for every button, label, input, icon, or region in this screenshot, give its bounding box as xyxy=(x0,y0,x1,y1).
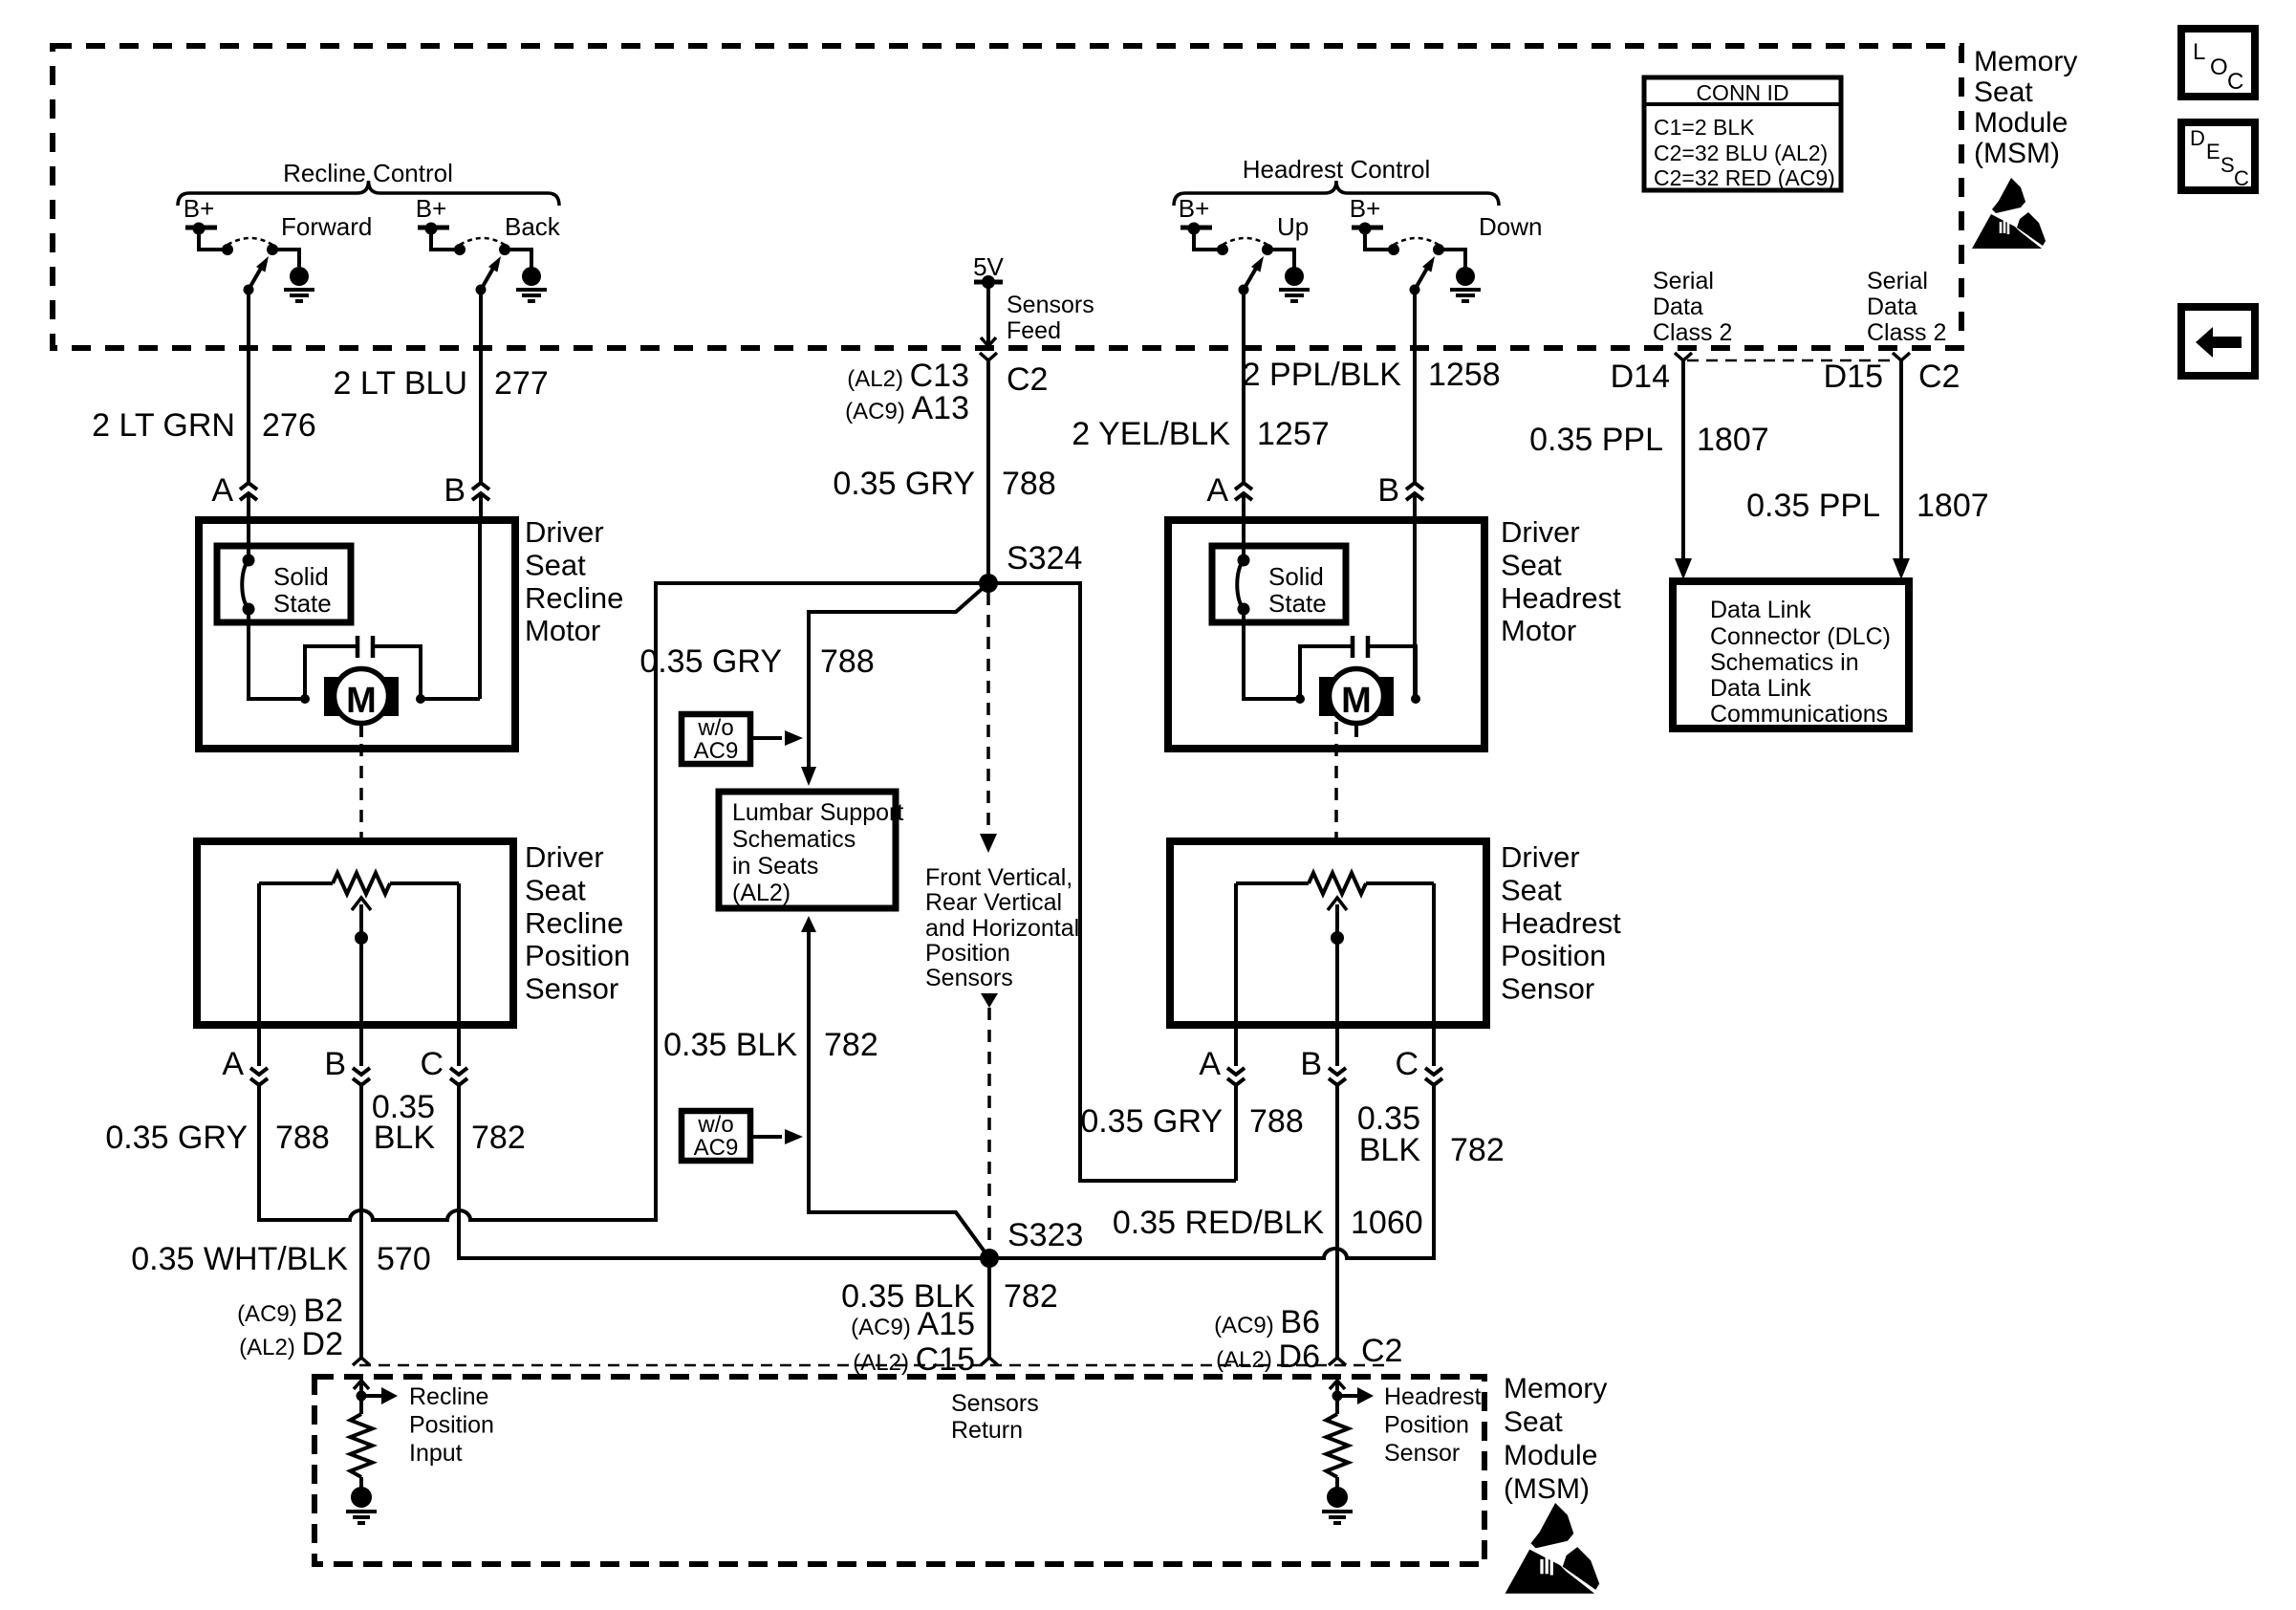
svg-text:Module: Module xyxy=(1504,1440,1597,1471)
svg-text:(MSM): (MSM) xyxy=(1504,1473,1590,1505)
svg-text:Driver: Driver xyxy=(1501,515,1580,549)
svg-text:2 LT GRN: 2 LT GRN xyxy=(92,407,235,444)
svg-text:in Seats: in Seats xyxy=(732,853,818,880)
LOC reference box xyxy=(2181,29,2255,97)
svg-text:C: C xyxy=(2234,166,2249,190)
svg-text:Back: Back xyxy=(505,212,561,241)
svg-text:AC9: AC9 xyxy=(694,1135,739,1161)
svg-text:0.35 PPL: 0.35 PPL xyxy=(1529,422,1663,458)
svg-text:Data Link: Data Link xyxy=(1710,597,1811,623)
svg-text:w/o: w/o xyxy=(697,1112,733,1138)
svg-text:B: B xyxy=(1377,472,1399,509)
CONN ID table xyxy=(1644,77,1841,190)
resistor Recline Position Input xyxy=(354,1381,369,1389)
svg-text:788: 788 xyxy=(275,1120,330,1156)
wire 0.35 BLK 782 (lumbar return) xyxy=(801,916,816,932)
svg-text:C: C xyxy=(2227,69,2243,95)
svg-text:1807: 1807 xyxy=(1697,422,1769,458)
resistor Headrest Position Sensor xyxy=(1330,1381,1345,1389)
svg-text:Sensors: Sensors xyxy=(1007,292,1094,318)
svg-text:Feed: Feed xyxy=(1007,317,1061,344)
svg-text:C1=2 BLK: C1=2 BLK xyxy=(1654,115,1755,140)
svg-text:S323: S323 xyxy=(1007,1217,1083,1253)
svg-text:Return: Return xyxy=(951,1417,1023,1444)
Driver Seat Recline Position Sensor xyxy=(197,841,513,1025)
mechanical link headrest motor-sensor xyxy=(1334,722,1338,841)
svg-text:L: L xyxy=(2193,39,2205,65)
connector C2 pin (sensors feed) xyxy=(980,353,997,360)
splice S324 xyxy=(979,574,998,593)
svg-text:S: S xyxy=(2220,153,2235,177)
svg-text:788: 788 xyxy=(1002,466,1056,502)
svg-text:Recline: Recline xyxy=(525,581,623,615)
svg-text:782: 782 xyxy=(1450,1132,1505,1168)
svg-text:0.35 GRY: 0.35 GRY xyxy=(1080,1103,1223,1140)
svg-text:Solid: Solid xyxy=(273,562,329,591)
mechanical link recline motor-sensor xyxy=(359,722,363,841)
svg-text:State: State xyxy=(273,589,332,618)
svg-text:276: 276 xyxy=(262,407,316,444)
svg-text:2 LT BLU: 2 LT BLU xyxy=(334,365,467,402)
svg-text:788: 788 xyxy=(1249,1103,1304,1140)
svg-text:Communications: Communications xyxy=(1710,701,1888,728)
svg-text:Driver: Driver xyxy=(1501,840,1580,874)
svg-text:Headrest: Headrest xyxy=(1384,1383,1481,1410)
Headrest Control brace xyxy=(1174,181,1499,206)
svg-text:Sensor: Sensor xyxy=(525,972,618,1006)
wire 0.35 PPL 1807 (D15 serial data) xyxy=(1893,353,1910,360)
svg-text:Sensors: Sensors xyxy=(951,1390,1039,1417)
svg-text:A: A xyxy=(211,472,233,509)
svg-text:Seat: Seat xyxy=(1974,76,2033,108)
svg-text:B+: B+ xyxy=(184,194,215,223)
svg-text:Serial: Serial xyxy=(1867,268,1928,294)
svg-text:Driver: Driver xyxy=(525,840,604,874)
svg-text:BLK: BLK xyxy=(374,1120,436,1156)
svg-text:A: A xyxy=(1206,472,1228,509)
svg-text:788: 788 xyxy=(820,643,875,680)
Memory Seat Module top dashed box xyxy=(53,46,1961,348)
svg-text:Serial: Serial xyxy=(1653,268,1714,294)
callout w/o AC9 (upper) xyxy=(682,714,750,764)
svg-text:D: D xyxy=(2190,126,2205,150)
svg-text:Seat: Seat xyxy=(1501,873,1562,906)
svg-text:0.35 WHT/BLK: 0.35 WHT/BLK xyxy=(131,1241,348,1277)
wire 0.35 PPL 1807 (D14 serial data) xyxy=(1675,353,1692,360)
wire 0.35 BLK 782 (recline sensor C to S323) xyxy=(459,1082,985,1258)
svg-text:(MSM): (MSM) xyxy=(1974,138,2060,169)
svg-text:C: C xyxy=(1395,1046,1419,1082)
svg-text:570: 570 xyxy=(377,1241,431,1277)
svg-text:Seat: Seat xyxy=(525,873,586,906)
svg-text:Position: Position xyxy=(525,939,630,972)
dashed wire to S323 (lower) xyxy=(981,993,998,1008)
connector C2 thin dashed line (bottom) xyxy=(359,1364,1386,1367)
svg-text:Recline Control: Recline Control xyxy=(283,159,453,187)
wire 0.35 WHT/BLK 570 (recline position input) xyxy=(359,1082,363,1359)
wire S323 to headrest sensor C xyxy=(989,1082,1434,1258)
svg-text:Data: Data xyxy=(1653,294,1703,320)
svg-text:Data Link: Data Link xyxy=(1710,675,1811,702)
wire S324 to lumbar feed xyxy=(809,583,988,767)
svg-text:0.35 GRY: 0.35 GRY xyxy=(639,643,782,680)
svg-text:2 PPL/BLK: 2 PPL/BLK xyxy=(1243,357,1402,393)
svg-text:M: M xyxy=(346,681,377,721)
svg-text:Sensor: Sensor xyxy=(1384,1440,1460,1467)
svg-text:D15: D15 xyxy=(1824,359,1883,395)
Lumbar Support Schematics callout box xyxy=(719,792,896,908)
svg-text:277: 277 xyxy=(494,365,549,402)
svg-text:(AL2): (AL2) xyxy=(732,880,791,906)
svg-text:782: 782 xyxy=(824,1027,878,1063)
svg-text:C2: C2 xyxy=(1007,361,1048,398)
svg-text:Seat: Seat xyxy=(525,548,586,581)
ESD warning symbol (bottom) xyxy=(1531,1503,1574,1548)
wire headrest sensor A drop xyxy=(1234,1082,1238,1181)
splice S323 xyxy=(980,1249,999,1268)
svg-text:Position: Position xyxy=(1384,1412,1469,1439)
svg-text:Front Vertical,: Front Vertical, xyxy=(925,864,1072,891)
svg-text:1258: 1258 xyxy=(1428,357,1501,393)
svg-text:B: B xyxy=(1300,1046,1322,1082)
svg-text:A: A xyxy=(222,1046,244,1082)
svg-text:C2: C2 xyxy=(1918,359,1960,395)
svg-text:2 YEL/BLK: 2 YEL/BLK xyxy=(1072,416,1230,452)
svg-text:Seat: Seat xyxy=(1504,1406,1563,1438)
svg-text:1060: 1060 xyxy=(1351,1205,1423,1241)
Recline Control brace xyxy=(178,181,559,206)
svg-text:Data: Data xyxy=(1867,294,1917,320)
svg-text:B: B xyxy=(444,472,466,509)
svg-text:Up: Up xyxy=(1277,212,1309,241)
svg-text:S324: S324 xyxy=(1007,540,1082,577)
svg-text:AC9: AC9 xyxy=(694,738,739,764)
svg-text:Solid: Solid xyxy=(1268,562,1324,591)
svg-text:0.35 PPL: 0.35 PPL xyxy=(1746,488,1880,524)
svg-text:B+: B+ xyxy=(416,194,447,223)
DESC reference box xyxy=(2181,122,2255,190)
wire 2 LT BLU 277 (recline B) xyxy=(479,290,483,483)
wire 2 YEL/BLK 1257 (headrest A) xyxy=(1242,290,1245,483)
svg-text:Position: Position xyxy=(1501,939,1606,972)
svg-text:O: O xyxy=(2210,54,2228,80)
svg-text:CONN ID: CONN ID xyxy=(1696,80,1788,105)
svg-text:Connector (DLC): Connector (DLC) xyxy=(1710,623,1891,650)
svg-text:B: B xyxy=(324,1046,346,1082)
svg-text:Motor: Motor xyxy=(525,614,600,647)
wire 2 LT GRN 276 (recline A) xyxy=(247,290,250,483)
svg-text:Lumbar Support: Lumbar Support xyxy=(732,799,903,826)
svg-text:Headrest Control: Headrest Control xyxy=(1243,155,1431,184)
wire S324 to headrest branch xyxy=(988,583,1236,1181)
svg-text:Position: Position xyxy=(409,1412,494,1439)
back arrow box xyxy=(2181,307,2255,376)
svg-text:Class 2: Class 2 xyxy=(1653,319,1732,346)
svg-text:Memory: Memory xyxy=(1974,46,2077,77)
svg-text:Headrest: Headrest xyxy=(1501,581,1621,615)
svg-text:0.35 RED/BLK: 0.35 RED/BLK xyxy=(1113,1205,1324,1241)
Memory Seat Module bottom dashed box xyxy=(314,1377,1484,1564)
svg-text:Sensor: Sensor xyxy=(1501,972,1594,1006)
svg-text:0.35 GRY: 0.35 GRY xyxy=(833,466,975,502)
callout w/o AC9 (lower) xyxy=(682,1111,750,1161)
svg-text:Module: Module xyxy=(1974,107,2068,139)
svg-text:Headrest: Headrest xyxy=(1501,906,1621,940)
svg-text:M: M xyxy=(1341,681,1372,721)
Data Link Connector callout box xyxy=(1673,581,1909,729)
wire 0.35 GRY 788 (recline sensor A to S324) xyxy=(259,583,985,1220)
svg-text:Recline: Recline xyxy=(525,906,623,940)
svg-text:Schematics: Schematics xyxy=(732,826,856,853)
Driver Seat Headrest Position Sensor xyxy=(1170,841,1486,1025)
svg-text:and Horizontal: and Horizontal xyxy=(925,915,1079,942)
wire 2 PPL/BLK 1258 (headrest B) xyxy=(1413,290,1417,483)
svg-text:w/o: w/o xyxy=(697,715,733,741)
svg-text:Input: Input xyxy=(409,1440,463,1467)
wire 0.35 RED/BLK 1060 (headrest position sensor) xyxy=(1335,1082,1339,1359)
svg-text:Down: Down xyxy=(1479,212,1542,241)
svg-text:Memory: Memory xyxy=(1504,1373,1607,1404)
svg-text:Position: Position xyxy=(925,940,1010,967)
svg-text:1257: 1257 xyxy=(1257,416,1330,452)
svg-text:Seat: Seat xyxy=(1501,548,1562,581)
svg-text:Rear Vertical: Rear Vertical xyxy=(925,889,1062,916)
svg-text:D14: D14 xyxy=(1611,359,1670,395)
svg-text:Schematics in: Schematics in xyxy=(1710,649,1859,676)
svg-text:Recline: Recline xyxy=(409,1383,488,1410)
dashed wire to position sensors (upper) xyxy=(986,593,990,834)
svg-text:C2: C2 xyxy=(1361,1333,1402,1369)
svg-text:Motor: Motor xyxy=(1501,614,1576,647)
svg-text:B+: B+ xyxy=(1179,194,1210,223)
svg-text:Class 2: Class 2 xyxy=(1867,319,1946,346)
svg-text:E: E xyxy=(2206,140,2220,163)
svg-text:Forward: Forward xyxy=(281,212,372,241)
Driver Seat Recline Motor xyxy=(199,520,515,749)
svg-text:0.35 BLK: 0.35 BLK xyxy=(663,1027,797,1063)
svg-text:782: 782 xyxy=(471,1120,526,1156)
wire 0.35 BLK 782 (sensors return) xyxy=(987,1258,991,1359)
svg-text:0.35 GRY: 0.35 GRY xyxy=(105,1120,248,1156)
ESD warning symbol (top) xyxy=(1992,178,2025,213)
svg-text:B+: B+ xyxy=(1350,194,1381,223)
svg-text:Sensors: Sensors xyxy=(925,965,1013,991)
svg-text:A: A xyxy=(1199,1046,1221,1082)
svg-text:BLK: BLK xyxy=(1359,1132,1421,1168)
svg-text:782: 782 xyxy=(1004,1278,1058,1315)
svg-text:1807: 1807 xyxy=(1917,488,1989,524)
Driver Seat Headrest Motor xyxy=(1168,520,1484,749)
svg-text:C: C xyxy=(420,1046,444,1082)
svg-text:C2=32 BLU (AL2): C2=32 BLU (AL2) xyxy=(1654,141,1828,165)
svg-text:Driver: Driver xyxy=(525,515,604,549)
svg-text:C2=32 RED (AC9): C2=32 RED (AC9) xyxy=(1654,165,1835,190)
svg-text:State: State xyxy=(1268,589,1327,618)
connector C2 thin dashed line (top) xyxy=(1687,359,1897,362)
